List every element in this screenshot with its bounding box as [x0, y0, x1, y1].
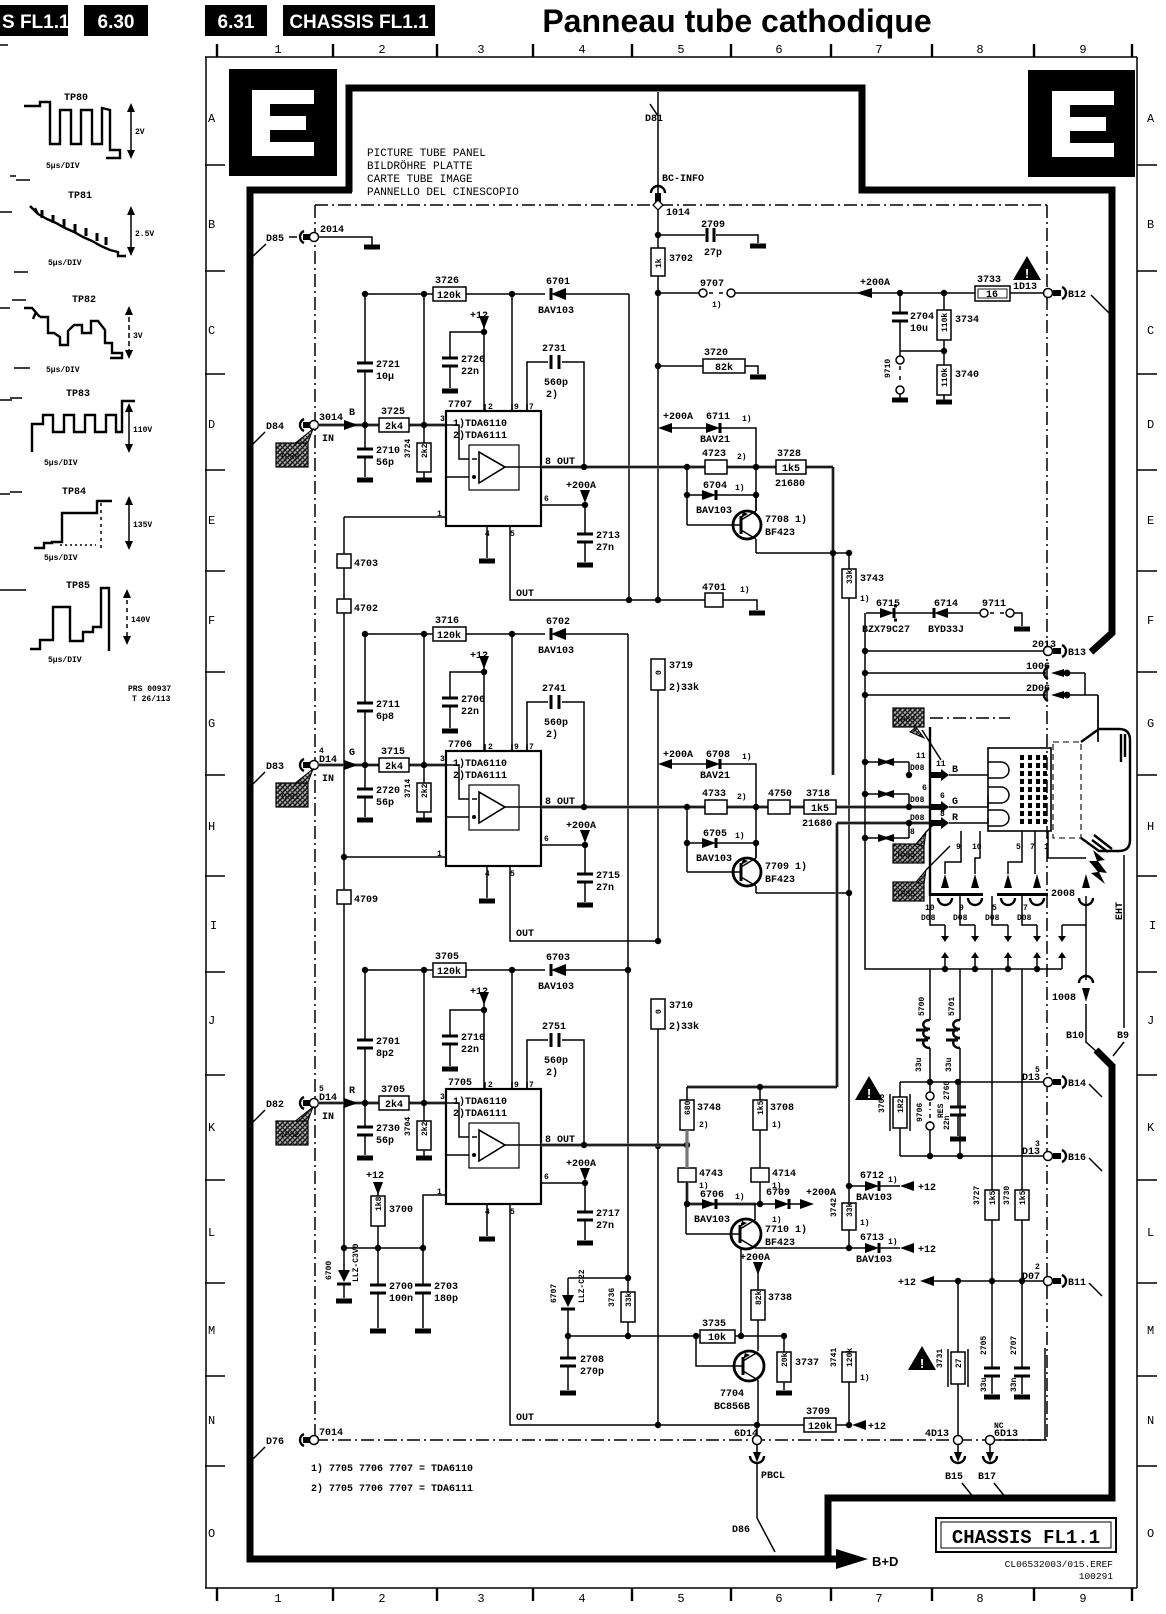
svg-text:D: D — [208, 418, 215, 432]
svg-text:2705: 2705 — [980, 1336, 989, 1355]
svg-text:+200A: +200A — [860, 278, 890, 289]
capacitor 2721 10u — [364, 294, 366, 425]
link 9710 — [899, 351, 901, 356]
svg-text:11: 11 — [916, 752, 926, 761]
wire feedback to clamp column — [627, 634, 629, 1278]
svg-text:TP84: TP84 — [62, 487, 86, 498]
wire 2D06 — [865, 694, 1046, 696]
svg-text:5µs/DIV: 5µs/DIV — [46, 366, 80, 375]
svg-text:BAV103: BAV103 — [538, 982, 574, 993]
svg-text:BF423: BF423 — [765, 875, 795, 886]
svg-text:33u: 33u — [915, 1057, 924, 1072]
capacitor 2705 33u — [991, 1281, 993, 1394]
zener 6707 LLZ-C22 — [568, 1278, 628, 1336]
pin 6 +200A — [541, 1182, 585, 1184]
svg-text:8p2: 8p2 — [376, 1049, 394, 1060]
svg-text:11: 11 — [936, 760, 946, 769]
diode 6702 BAV103 — [551, 628, 566, 640]
svg-text:10µ: 10µ — [376, 372, 394, 383]
ground — [442, 1067, 458, 1072]
pin 6 +200A — [541, 504, 585, 506]
svg-text:BAV103: BAV103 — [856, 1255, 892, 1266]
svg-text:D07: D07 — [1022, 1272, 1040, 1283]
svg-text:22n: 22n — [943, 1115, 952, 1130]
svg-text:B+D: B+D — [872, 1554, 898, 1569]
diode 6706 BAV103 — [687, 1203, 775, 1205]
svg-text:21680: 21680 — [775, 479, 805, 490]
svg-text:TP85: TP85 — [896, 890, 915, 899]
svg-text:D83: D83 — [266, 762, 284, 773]
svg-text:1): 1) — [860, 1219, 870, 1228]
svg-text:+200A: +200A — [566, 1159, 596, 1170]
svg-text:2: 2 — [378, 1592, 385, 1606]
svg-text:+200A: +200A — [740, 1253, 770, 1264]
svg-text:2): 2) — [546, 729, 558, 741]
svg-text:2: 2 — [488, 1081, 493, 1090]
svg-text:6703: 6703 — [546, 953, 570, 964]
svg-text:B10: B10 — [1066, 1031, 1084, 1042]
pin 9 wire — [511, 294, 513, 411]
output line R — [541, 823, 930, 1147]
svg-text:6708: 6708 — [706, 750, 730, 761]
svg-text:+200A: +200A — [663, 750, 693, 761]
svg-text:PRS 00937: PRS 00937 — [128, 685, 171, 694]
svg-text:2)TDA6111: 2)TDA6111 — [453, 430, 507, 442]
header tab S FL1.1 — [0, 5, 68, 36]
resistor 3714 2k2 — [423, 634, 425, 818]
header tab 6.30 — [84, 5, 148, 36]
svg-text:6D13: 6D13 — [994, 1429, 1018, 1440]
cathode arrow B pin 11 — [931, 769, 949, 781]
svg-text:5: 5 — [677, 1592, 684, 1606]
svg-text:2717: 2717 — [596, 1209, 620, 1220]
capacitor 2706 22n — [450, 672, 484, 728]
grid ruler frame — [205, 57, 1137, 1588]
wire node row — [900, 350, 944, 352]
svg-text:A: A — [208, 112, 216, 126]
svg-text:T 26/113: T 26/113 — [132, 695, 171, 704]
svg-text:6702: 6702 — [546, 617, 570, 628]
link 4701 — [705, 593, 723, 607]
capacitor 2703 180p — [422, 1248, 424, 1328]
svg-text:+12: +12 — [868, 1422, 886, 1433]
connector B11 — [1044, 1277, 1053, 1286]
svg-text:6: 6 — [922, 784, 927, 793]
svg-text:F: F — [1147, 614, 1154, 628]
svg-text:4714: 4714 — [772, 1169, 796, 1180]
svg-text:2709: 2709 — [701, 220, 725, 231]
test point callout TP83 — [893, 708, 924, 727]
node 1014 hook — [651, 186, 665, 193]
svg-text:3735: 3735 — [702, 1319, 726, 1330]
svg-text:!: ! — [920, 1356, 924, 1371]
svg-text:D86: D86 — [732, 1525, 750, 1536]
resistor 3703 1R2 — [899, 1082, 901, 1156]
svg-text:9707: 9707 — [700, 279, 724, 290]
svg-text:100n: 100n — [389, 1294, 413, 1305]
clamp node wire — [568, 1335, 784, 1337]
svg-text:OUT: OUT — [516, 1413, 534, 1424]
pin 9 wire — [511, 970, 513, 1089]
connector D85 — [251, 244, 266, 258]
resistor 3737 20k — [783, 1336, 785, 1390]
svg-text:3725: 3725 — [381, 407, 405, 418]
connector D82 — [251, 1110, 265, 1124]
svg-text:2700: 2700 — [389, 1282, 413, 1293]
svg-text:2): 2) — [546, 1067, 558, 1079]
svg-text:1) 7705 7706 7707 = TDA6110: 1) 7705 7706 7707 = TDA6110 — [311, 1463, 473, 1475]
svg-text:110V: 110V — [133, 426, 152, 435]
svg-text:6: 6 — [940, 792, 945, 801]
resistor 3736 33k — [627, 1278, 629, 1336]
svg-text:2: 2 — [378, 43, 385, 57]
svg-text:D: D — [1147, 418, 1154, 432]
svg-text:TP81: TP81 — [68, 191, 92, 202]
svg-text:3719: 3719 — [669, 661, 693, 672]
wire B11 +12 — [920, 1276, 934, 1286]
svg-text:6715: 6715 — [876, 599, 900, 610]
svg-text:3: 3 — [477, 43, 484, 57]
svg-text:C: C — [208, 324, 215, 338]
svg-text:3705: 3705 — [381, 1085, 405, 1096]
resistor 3738 82k +200A — [753, 1262, 763, 1275]
svg-text:2: 2 — [488, 403, 493, 412]
svg-text:4: 4 — [578, 1592, 585, 1606]
feedback resistor 3726 120k — [365, 293, 545, 295]
svg-text:6707: 6707 — [550, 1284, 559, 1303]
svg-text:TP85: TP85 — [66, 581, 90, 592]
svg-text:3728: 3728 — [777, 449, 801, 460]
svg-text:4D13: 4D13 — [925, 1429, 949, 1440]
svg-text:4701: 4701 — [702, 583, 726, 594]
svg-text:6: 6 — [775, 43, 782, 57]
svg-text:D76: D76 — [266, 1437, 284, 1448]
ground — [416, 1156, 432, 1161]
svg-text:BZX79C27: BZX79C27 — [862, 625, 910, 636]
svg-text:BC856B: BC856B — [714, 1402, 750, 1413]
capacitor 2716 22n — [450, 1010, 484, 1066]
svg-text:33k: 33k — [846, 1202, 855, 1217]
svg-text:7710 1): 7710 1) — [765, 1224, 807, 1236]
svg-text:4: 4 — [578, 43, 585, 57]
cathode B — [988, 762, 1009, 778]
link 4743 1) — [678, 1168, 696, 1182]
wire feedback to OUT loop — [628, 294, 630, 600]
svg-text:3702: 3702 — [669, 254, 693, 265]
svg-text:B16: B16 — [1068, 1153, 1086, 1164]
warning triangle — [908, 1346, 936, 1370]
capacitor 2760 22n — [957, 1082, 959, 1136]
svg-text:1): 1) — [735, 1193, 745, 1202]
svg-text:9: 9 — [514, 743, 519, 752]
connector 1008 — [1079, 976, 1093, 983]
svg-text:J: J — [1147, 1014, 1154, 1028]
svg-text:5700: 5700 — [918, 997, 927, 1016]
svg-text:3: 3 — [440, 755, 445, 764]
CRT bulb — [1081, 729, 1130, 851]
link 4723 2) — [705, 460, 727, 474]
svg-text:4723: 4723 — [702, 449, 726, 460]
wire +200A rail to B12 — [735, 292, 1043, 294]
resistor 3728 1k5 — [776, 460, 806, 474]
svg-text:6.31: 6.31 — [218, 12, 255, 33]
svg-text:7: 7 — [529, 1081, 534, 1090]
svg-text:9: 9 — [1079, 1592, 1086, 1606]
grid row letters right — [1147, 112, 1156, 1541]
svg-text:BAV103: BAV103 — [538, 306, 574, 317]
svg-text:3724: 3724 — [404, 439, 413, 458]
op-amp 7707 TDA6110/6111 — [446, 411, 541, 526]
ground — [892, 398, 908, 403]
svg-text:B9: B9 — [1117, 1031, 1129, 1042]
CRT socket — [988, 748, 1051, 831]
svg-text:1): 1) — [772, 1121, 782, 1130]
test point callout TP80 — [294, 429, 313, 448]
svg-text:6: 6 — [544, 835, 549, 844]
transistor 7709 BF423 — [733, 858, 761, 886]
svg-text:TP81: TP81 — [280, 793, 299, 802]
capacitor 2700 100n — [377, 1248, 379, 1328]
svg-text:J: J — [208, 1014, 215, 1028]
svg-text:2): 2) — [737, 453, 747, 462]
svg-text:1D13: 1D13 — [1013, 282, 1037, 293]
ground — [750, 244, 766, 249]
svg-text:4733: 4733 — [702, 789, 726, 800]
svg-text:2k2: 2k2 — [421, 443, 430, 458]
svg-text:N: N — [1147, 1414, 1154, 1428]
svg-text:I: I — [210, 919, 217, 933]
svg-text:B12: B12 — [1068, 290, 1086, 301]
svg-text:3731: 3731 — [936, 1349, 945, 1368]
svg-text:3742: 3742 — [830, 1198, 839, 1217]
svg-text:B17: B17 — [978, 1472, 996, 1483]
svg-text:2704: 2704 — [910, 312, 934, 323]
svg-text:560p: 560p — [544, 378, 568, 389]
svg-text:2710: 2710 — [376, 446, 400, 457]
svg-text:S FL1.1: S FL1.1 — [2, 12, 70, 33]
svg-text:120k: 120k — [437, 630, 461, 642]
svg-text:2k4: 2k4 — [385, 1099, 403, 1111]
svg-text:3705: 3705 — [435, 952, 459, 963]
thick module border top — [349, 88, 1112, 652]
svg-text:B11: B11 — [1068, 1278, 1086, 1289]
svg-text:CHASSIS FL1.1: CHASSIS FL1.1 — [952, 1527, 1100, 1549]
svg-text:4702: 4702 — [354, 604, 378, 615]
svg-text:6700: 6700 — [325, 1261, 334, 1280]
dash-dot TP pointer — [930, 717, 1010, 719]
svg-text:20k: 20k — [781, 1352, 790, 1367]
svg-text:+200A: +200A — [566, 481, 596, 492]
svg-text:7: 7 — [875, 43, 882, 57]
svg-text:TP83: TP83 — [896, 716, 915, 725]
link 4714 1) — [751, 1168, 769, 1182]
resistor 3705 2k4 — [379, 1096, 409, 1110]
svg-text:2)33k: 2)33k — [669, 1021, 699, 1033]
panel title block — [367, 148, 519, 199]
svg-text:D84: D84 — [266, 422, 284, 433]
svg-text:BAV103: BAV103 — [538, 646, 574, 657]
svg-text:1): 1) — [772, 1216, 782, 1225]
svg-text:22n: 22n — [461, 1045, 479, 1056]
svg-text:3736: 3736 — [608, 1288, 617, 1307]
svg-text:3700: 3700 — [389, 1205, 413, 1216]
warning triangle — [855, 1076, 883, 1100]
svg-text:7: 7 — [529, 403, 534, 412]
wire B13 — [865, 650, 1043, 652]
connector B16 — [1044, 1152, 1053, 1161]
svg-text:CHASSIS FL1.1: CHASSIS FL1.1 — [289, 12, 429, 33]
resistor 3734 110k — [943, 293, 945, 365]
capacitor 2731 560p 2) — [527, 362, 584, 467]
svg-text:IN: IN — [322, 1112, 334, 1123]
svg-text:3715: 3715 — [381, 747, 405, 758]
svg-text:TP80: TP80 — [64, 93, 88, 104]
svg-text:D08: D08 — [910, 814, 925, 823]
connector pin arrows — [938, 874, 1093, 905]
grid column numbers top — [274, 43, 1086, 57]
svg-text:2)33k: 2)33k — [669, 682, 699, 694]
svg-text:1): 1) — [888, 1176, 898, 1185]
wire B16 — [900, 1155, 1043, 1157]
svg-text:EHT: EHT — [1115, 902, 1126, 920]
svg-text:21680: 21680 — [802, 819, 832, 830]
svg-text:2707: 2707 — [1010, 1336, 1019, 1355]
+12 arrow — [852, 1420, 866, 1430]
svg-text:120k: 120k — [808, 1421, 832, 1433]
wire collector to 33k — [756, 552, 850, 554]
svg-text:120k: 120k — [437, 290, 461, 302]
B+D arrow — [836, 1549, 868, 1569]
capacitor 2707 33n — [1021, 1281, 1023, 1394]
ground — [442, 389, 458, 394]
resistor 3715 2k4 — [379, 758, 409, 772]
svg-text:6.30: 6.30 — [98, 12, 135, 33]
op-amp 7706 TDA6110/6111 — [446, 751, 541, 866]
feedback resistor 3706 120k — [365, 969, 545, 971]
svg-text:F: F — [208, 614, 215, 628]
svg-text:B15: B15 — [945, 1472, 963, 1483]
svg-text:3716: 3716 — [435, 616, 459, 627]
svg-text:O: O — [1147, 1527, 1154, 1541]
svg-text:135V: 135V — [133, 521, 152, 530]
svg-text:D08: D08 — [1017, 914, 1032, 923]
svg-text:3V: 3V — [133, 332, 143, 341]
svg-text:2726: 2726 — [461, 355, 485, 366]
tube internals dashed — [1053, 742, 1081, 838]
pin 6 +200A — [541, 844, 585, 846]
svg-text:D08: D08 — [910, 796, 925, 805]
svg-text:1k5: 1k5 — [782, 463, 800, 475]
svg-text:5µs/DIV: 5µs/DIV — [48, 259, 82, 268]
svg-text:D85: D85 — [266, 234, 284, 245]
svg-text:1)TDA6110: 1)TDA6110 — [453, 758, 507, 770]
svg-text:7: 7 — [875, 1592, 882, 1606]
svg-text:27: 27 — [955, 1358, 964, 1368]
svg-text:4709: 4709 — [354, 895, 378, 906]
svg-text:110k: 110k — [941, 368, 950, 387]
wire B14 — [900, 1081, 1043, 1083]
link 4702 — [337, 599, 351, 613]
diode 6712 BAV103 +12 — [849, 1185, 900, 1187]
ground — [577, 1241, 593, 1246]
svg-text:1: 1 — [274, 1592, 281, 1606]
svg-text:120k: 120k — [437, 966, 461, 978]
wire 1006 — [865, 672, 1046, 674]
svg-text:Panneau tube cathodique: Panneau tube cathodique — [542, 3, 931, 39]
resistor 3720 82k — [658, 366, 758, 374]
svg-text:2751: 2751 — [542, 1022, 566, 1033]
svg-text:CARTE TUBE IMAGE: CARTE TUBE IMAGE — [367, 174, 473, 186]
svg-text:BC-INFO: BC-INFO — [662, 174, 704, 185]
svg-text:I: I — [1149, 919, 1156, 933]
svg-text:6: 6 — [544, 1173, 549, 1182]
svg-text:2V: 2V — [135, 128, 145, 137]
op-amp 7705 TDA6110/6111 — [446, 1089, 541, 1204]
svg-text:3710: 3710 — [669, 1001, 693, 1012]
svg-text:6704: 6704 — [703, 481, 727, 492]
svg-text:D81: D81 — [645, 114, 663, 125]
svg-text:5µs/DIV: 5µs/DIV — [46, 162, 80, 171]
svg-text:6705: 6705 — [703, 829, 727, 840]
svg-text:BF423: BF423 — [765, 1238, 795, 1249]
link 4750 — [768, 800, 790, 814]
svg-text:560p: 560p — [544, 718, 568, 729]
svg-text:A: A — [1147, 112, 1155, 126]
svg-text:680: 680 — [684, 1100, 693, 1115]
ground — [577, 903, 593, 908]
svg-text:3718: 3718 — [806, 789, 830, 800]
svg-text:K: K — [1147, 1121, 1155, 1135]
grid row ticks left — [205, 165, 225, 1466]
svg-text:8: 8 — [976, 43, 983, 57]
diode 6714 BYD33J — [934, 608, 948, 618]
connector pair arrows D08 8 — [865, 823, 909, 838]
svg-text:6: 6 — [775, 1592, 782, 1606]
svg-text:B13: B13 — [1068, 648, 1086, 659]
svg-text:7707: 7707 — [448, 400, 472, 411]
svg-text:7014: 7014 — [319, 1428, 343, 1439]
grid feed wire — [929, 727, 931, 896]
svg-text:2760: 2760 — [943, 1081, 952, 1100]
svg-text:1)TDA6110: 1)TDA6110 — [453, 418, 507, 430]
svg-text:6p8: 6p8 — [376, 712, 394, 723]
grid column numbers bottom — [274, 1592, 1086, 1606]
getter / filament marks — [1121, 734, 1125, 762]
test point callout TP82 — [294, 1107, 313, 1126]
svg-text:10u: 10u — [910, 324, 928, 335]
connector B14 — [1044, 1078, 1053, 1087]
page edge marks far left — [0, 45, 12, 590]
resistor 3704 2k2 — [423, 970, 425, 1156]
svg-text:1): 1) — [742, 415, 752, 424]
ground — [749, 611, 765, 616]
svg-text:LLZ-C3V0: LLZ-C3V0 — [352, 1243, 361, 1282]
svg-text:6714: 6714 — [934, 599, 958, 610]
svg-text:1): 1) — [735, 832, 745, 841]
svg-text:8: 8 — [940, 810, 945, 819]
svg-text:!: ! — [867, 1086, 871, 1101]
svg-text:1)TDA6110: 1)TDA6110 — [453, 1096, 507, 1108]
connector pair arrows D08 11 — [865, 762, 909, 775]
grid column 865 — [864, 613, 866, 893]
svg-text:1k5: 1k5 — [757, 1100, 766, 1115]
connector D83 — [251, 772, 265, 786]
svg-text:6711: 6711 — [706, 412, 730, 423]
svg-text:IN: IN — [322, 774, 334, 785]
svg-text:TP82: TP82 — [72, 295, 96, 306]
svg-text:3720: 3720 — [704, 348, 728, 359]
svg-text:TP84: TP84 — [896, 852, 915, 861]
